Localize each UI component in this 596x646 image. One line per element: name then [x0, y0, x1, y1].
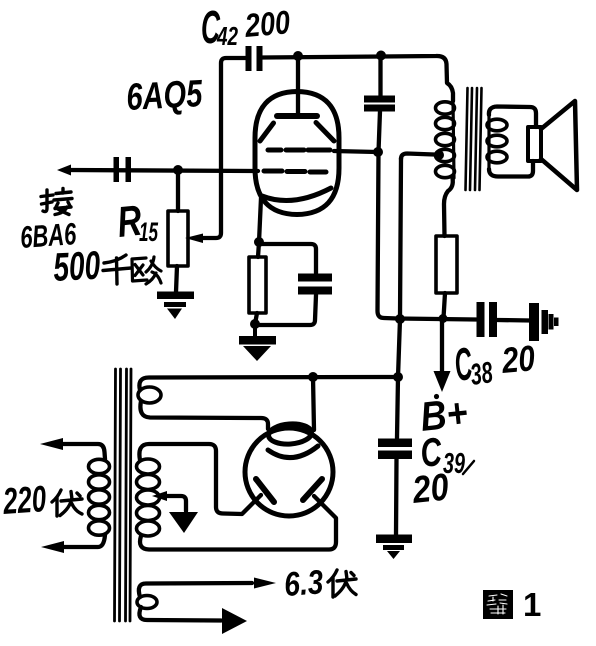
svg-text:15: 15: [139, 217, 159, 247]
center tap arrow: [165, 496, 186, 511]
cathode arc: [262, 188, 331, 201]
wire: secondary top to speaker: [489, 107, 536, 128]
screen grid dashes: [268, 148, 330, 153]
wire: rail down to bypass cap: [378, 56, 382, 96]
capacitor screen bypass: [364, 96, 395, 112]
chassis ground right: [529, 303, 559, 341]
svg-text:6.3: 6.3: [283, 563, 325, 604]
ground below cathode network: [239, 324, 276, 361]
wire: cathode resistor top lead: [258, 242, 259, 257]
beam plate left: [260, 123, 274, 141]
ground below R15: [157, 292, 194, 320]
svg-text:500: 500: [52, 244, 101, 290]
wire: C42 left branch down to arrow at R15: [202, 58, 246, 238]
wire: top rail from C42 to output transformer: [262, 56, 453, 101]
wire: secondary bottom to speaker: [489, 161, 533, 177]
label figure box 圖: [483, 590, 513, 619]
tube plate bar: [277, 113, 317, 119]
label 千: [103, 255, 131, 284]
rectifier filament winding: [138, 387, 161, 403]
node: cathode junction: [254, 237, 264, 247]
capacitor C42: [246, 46, 263, 71]
speaker: [528, 101, 577, 190]
wire: plate lead: [296, 56, 300, 115]
rectifier cathode arc: [268, 446, 318, 458]
rectifier HV winding: [137, 459, 160, 536]
power primary winding: [89, 459, 110, 535]
wire: R15 top lead: [176, 170, 180, 211]
wire: screen tap line: [401, 154, 434, 160]
wire: main B+ filter vertical line: [397, 158, 401, 438]
node: rail crossing: [395, 314, 405, 324]
wire: cathode to bypass cap top: [259, 244, 316, 273]
node: grid / R15 junction: [173, 165, 183, 175]
ground below C39: [376, 535, 412, 560]
transformer output primary winding: [436, 101, 455, 178]
rectifier plate left: [256, 479, 274, 502]
rectifier filament loop: [268, 423, 312, 446]
tube 6AQ5 envelope: [255, 92, 339, 215]
power primary top lead with arrow: [60, 444, 105, 459]
wire: cathode resistor bottom lead: [255, 313, 257, 324]
wire: screen line down to bottom rail: [378, 152, 399, 319]
beam plate right: [316, 123, 334, 142]
power transformer core: [115, 369, 132, 621]
node: heater top junction: [308, 372, 318, 382]
node: rectifier output junction: [393, 372, 403, 382]
wire: HV bottom lead to rectifier plate 2: [140, 496, 336, 550]
wire: resistor top lead from primary: [444, 178, 453, 236]
resistor cathode bias: [249, 257, 266, 313]
B+ arrow: [440, 319, 444, 372]
svg-text:20: 20: [499, 337, 536, 381]
label 伏 (6.3V): [328, 570, 356, 597]
rectifier tube: [245, 428, 333, 516]
resistor R15: [168, 211, 188, 266]
arrow into R15 grid node: [185, 234, 203, 244]
node: top rail to screen bypass cap: [376, 51, 386, 61]
wire: 6.3V top lead with arrow: [139, 583, 252, 597]
wire: screen grid to dropping line: [334, 151, 377, 152]
node: top rail to tube plate: [293, 51, 303, 61]
svg-text:38: 38: [468, 356, 495, 392]
wire: 6.3V bottom lead with big arrow: [139, 607, 221, 621]
label B+ dot: [434, 394, 439, 399]
wire: bypass cap down to screen node: [379, 111, 381, 152]
node: B+ takeoff junction: [439, 314, 448, 323]
svg-text:200: 200: [243, 3, 292, 44]
6.3V winding: [137, 596, 157, 609]
control grid dashes: [264, 171, 326, 172]
label 接: [41, 189, 72, 215]
wire: bypass cap bottom to cathode ground: [255, 295, 316, 325]
node: cathode ground junction: [250, 319, 260, 329]
capacitor C38: [477, 302, 498, 337]
rectifier plate right: [303, 479, 322, 500]
svg-text:6AQ5: 6AQ5: [125, 73, 204, 119]
svg-text:1: 1: [523, 586, 541, 623]
resistor B+ dropping: [436, 236, 457, 293]
node: tap dot on primary: [434, 150, 444, 160]
capacitor cathode bypass: [298, 274, 332, 295]
label 伏 (220V): [52, 490, 82, 516]
wire: HV top lead to rectifier plate: [139, 444, 261, 514]
node: screen junction: [373, 147, 383, 157]
wire: cathode lead: [259, 198, 261, 242]
transformer output core: [466, 88, 482, 190]
wire: filament top lead to B+ node: [139, 377, 394, 390]
arrow input left: [57, 165, 71, 176]
wire: C38 to chassis: [497, 318, 531, 323]
svg-text:220: 220: [1, 478, 48, 522]
label 欧: [132, 257, 161, 284]
wire: C39 bottom lead: [394, 459, 399, 536]
svg-text:42: 42: [216, 21, 238, 51]
ground arrow below tap: [169, 512, 198, 533]
svg-text:20: 20: [410, 466, 451, 512]
transformer output secondary winding: [487, 112, 507, 172]
power primary bottom lead with arrow: [60, 535, 105, 547]
capacitor C39: [378, 439, 412, 460]
capacitor input coupling: [114, 157, 132, 182]
wire: input line to grid: [68, 170, 258, 171]
wire: bottom rail to C38: [398, 319, 476, 320]
wire: rectifier top heater lead: [313, 377, 314, 430]
wire: resistor bottom lead: [444, 293, 446, 318]
wire: R15 bottom lead: [176, 266, 177, 292]
wire: filament bottom lead to tube: [140, 401, 268, 429]
